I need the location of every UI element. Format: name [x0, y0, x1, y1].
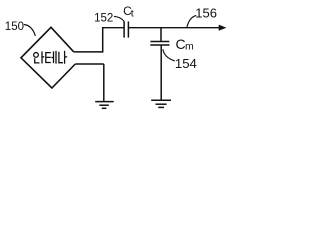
svg-text:154: 154	[175, 56, 197, 71]
antenna 150 (diamond symbol)	[21, 27, 75, 88]
antenna text 안테나: syllable 안	[34, 51, 45, 63]
capacitor Ct (152): left plate	[123, 21, 125, 37]
svg-text:152: 152	[94, 12, 113, 24]
svg-text:t: t	[131, 8, 134, 20]
wire: lower lead down to ground	[103, 64, 105, 101]
capacitor Ct (152): right plate	[127, 21, 129, 37]
svg-text:156: 156	[195, 6, 217, 21]
wire: antenna upper lead to riser	[74, 51, 103, 53]
ground under antenna lower lead	[95, 102, 114, 109]
ground under Cm	[151, 100, 171, 107]
capacitor Cm (154): bottom plate	[150, 44, 169, 46]
wire: main line from riser to capacitor Ct left plate	[102, 27, 124, 29]
wire: antenna lower lead	[75, 63, 104, 65]
wire: riser up to main line	[102, 28, 104, 53]
wire: main line from Ct right plate to output arrow	[128, 27, 219, 29]
output arrow head (node 156)	[219, 25, 227, 31]
antenna text 안테나: syllable 테	[46, 51, 56, 64]
wire: Cm bottom plate down to ground	[160, 46, 162, 100]
antenna text 안테나: syllable 나	[59, 51, 67, 64]
leader line for 150	[24, 25, 36, 36]
capacitor Cm (154): top plate	[150, 41, 169, 43]
svg-text:m: m	[185, 40, 194, 52]
leader line for 156	[187, 15, 196, 27]
svg-text:150: 150	[5, 21, 24, 33]
leader line for 154	[163, 49, 175, 61]
wire: branch from main line down to Cm	[160, 28, 162, 41]
leader line for 152	[114, 16, 124, 21]
